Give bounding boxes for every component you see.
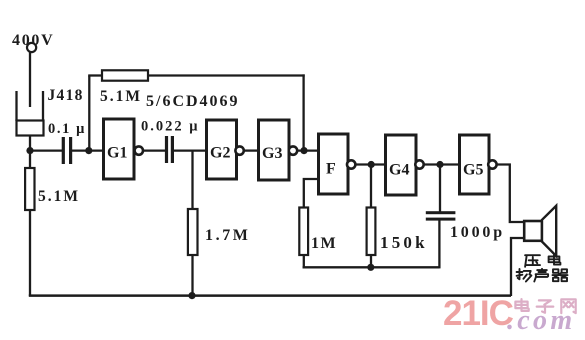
wire: G1 output to C2 (144, 149, 166, 151)
node A junction (26, 147, 33, 154)
svg-text:5.1M: 5.1M (38, 188, 80, 205)
feedback wire: top left segment (88, 74, 103, 76)
resistor R4 1.7M (188, 209, 198, 255)
resistor R2 5.1M (left) (25, 168, 34, 210)
watermark chinese 电子网 (515, 299, 528, 311)
label piezo speaker (Chinese) 扬声器 (517, 269, 532, 282)
wire: node A down to R2 and bottom rail (29, 151, 31, 296)
bottom rail (29, 294, 511, 297)
feedback wire: left vertical (88, 76, 90, 151)
svg-text:1.7M: 1.7M (205, 227, 251, 244)
svg-text:150k: 150k (380, 233, 428, 252)
svg-text:J418: J418 (48, 87, 84, 104)
svg-text:400V: 400V (12, 32, 54, 49)
humidity sensor J418 (17, 91, 44, 136)
svg-text:1000p: 1000p (450, 224, 505, 241)
label piezo speaker (Chinese) 压电 (525, 255, 540, 267)
gate F (319, 134, 356, 194)
node D junction (368, 161, 375, 168)
wire: 400V terminal down to sensor electrode (29, 52, 31, 107)
wire: C2 to G2 input (174, 149, 207, 151)
node E junction (436, 161, 443, 168)
inverter G5 (460, 135, 497, 194)
svg-text:0.022 μ: 0.022 μ (141, 119, 199, 135)
feedback wire: right vertical down to node C (302, 74, 304, 151)
wire: R6 to sub rail (370, 255, 372, 268)
inverter G4 (386, 135, 424, 195)
svg-text:5/6CD4069: 5/6CD4069 (146, 93, 240, 110)
capacitor C1 0.1u (62, 137, 72, 164)
svg-text:G3: G3 (262, 145, 282, 162)
wire: tap down to R4 (191, 151, 193, 209)
resistor R6 150k (367, 208, 376, 256)
svg-text:0.1 μ: 0.1 μ (48, 121, 86, 137)
capacitor C3 1000p (426, 211, 456, 220)
inverter G3 (259, 120, 298, 180)
svg-text:G1: G1 (107, 145, 127, 162)
wire: F lower input to R5 (304, 179, 319, 208)
wire: sensor body to node A (29, 136, 31, 153)
power terminal 400V (27, 43, 36, 52)
svg-text:G4: G4 (389, 162, 409, 179)
piezo speaker BL (524, 206, 556, 256)
svg-text:5.1M: 5.1M (100, 88, 142, 105)
junction: R6 / sub rail (367, 264, 374, 271)
wire: node D down to R6 (370, 165, 372, 209)
capacitor C2 0.022u (165, 136, 174, 163)
wire: G2 output to G3 input (244, 149, 258, 151)
resistor R1 5.1M (feedback) (102, 70, 148, 80)
wire: R5 to sub rail (303, 255, 305, 268)
resistor R5 1M (299, 208, 308, 256)
wire: C1 to node B (72, 149, 104, 151)
feedback wire: top right segment (148, 74, 305, 76)
svg-text:F: F (326, 161, 336, 178)
wire: R4 to bottom rail (191, 255, 193, 296)
wire: G3 output to node C and F input (298, 149, 319, 151)
svg-text:21IC: 21IC (443, 294, 514, 333)
wire: G4 output to G5 input (424, 163, 459, 165)
wire: speaker bottom terminal to bottom rail (511, 238, 524, 296)
wire: F output to G4 input (356, 163, 386, 165)
wire: node A to C1 (30, 149, 62, 151)
svg-text:G5: G5 (463, 162, 483, 179)
sub rail (R5/R6/C3 common) (303, 266, 440, 268)
wire: node E down to C3 (439, 165, 441, 213)
wire: C3 to sub rail end (438, 221, 440, 269)
svg-text:.com: .com (507, 305, 575, 336)
node C junction (300, 147, 307, 154)
wire: G5 output to speaker top terminal (497, 165, 524, 223)
svg-text:1M: 1M (311, 235, 337, 252)
node B junction (G1 input) (85, 147, 92, 154)
inverter G1 (104, 119, 144, 179)
svg-text:G2: G2 (210, 145, 230, 162)
inverter G2 (207, 120, 244, 179)
junction: R4 / bottom rail (188, 292, 195, 299)
